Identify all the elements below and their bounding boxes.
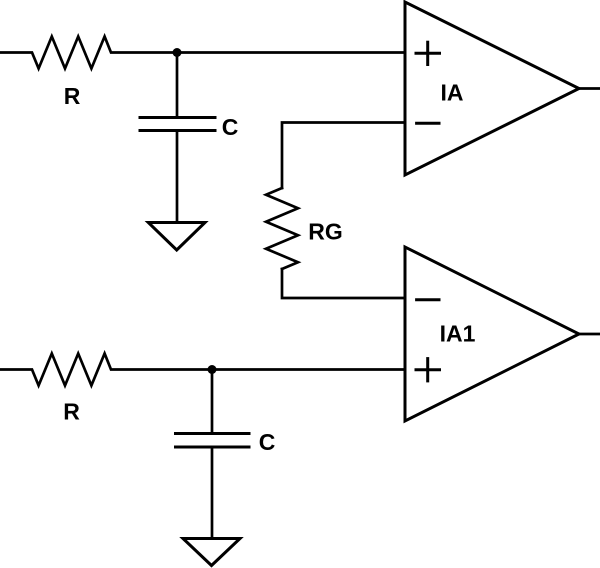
svg-text:R: R (64, 83, 81, 109)
svg-text:IA: IA (441, 80, 464, 106)
svg-text:IA1: IA1 (440, 321, 476, 347)
svg-text:C: C (222, 114, 239, 140)
svg-text:C: C (259, 429, 276, 455)
svg-text:R: R (63, 399, 80, 425)
svg-text:RG: RG (308, 219, 343, 245)
